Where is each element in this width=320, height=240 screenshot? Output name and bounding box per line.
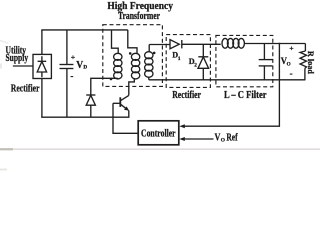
polarity dot W2 [129, 52, 132, 55]
label D1 [172, 51, 181, 63]
svg-text:1: 1 [178, 56, 181, 62]
svg-text:-: - [290, 68, 293, 78]
svg-text:R load: R load [306, 51, 316, 74]
svg-text:Supply: Supply [6, 53, 29, 64]
winding W2 primary [131, 53, 139, 79]
wire: D1 cathode to L and D2 node [182, 43, 221, 45]
label Vo Ref [215, 132, 239, 143]
svg-text:Rectifier: Rectifier [11, 84, 40, 95]
L-C filter dashed box [216, 35, 273, 86]
svg-text:Transformer: Transformer [118, 11, 161, 22]
rectifier block box [33, 54, 51, 78]
wire: Vo ref input [181, 138, 213, 140]
wire: feedback sense from output to controller [181, 43, 279, 126]
svg-text:D: D [83, 65, 87, 71]
diode D reset demagnetizing [86, 95, 95, 117]
transformer dashed box [103, 25, 163, 87]
wire: utility AC input [13, 65, 33, 67]
transistor Q switch [113, 95, 129, 117]
wire: bus step down to primary winding [128, 30, 137, 54]
svg-text:+: + [71, 52, 76, 61]
label + VD - at dc-link [70, 52, 87, 81]
capacitor C output [259, 44, 273, 80]
polarity dot W3 [153, 52, 156, 55]
diode D2 freewheeling [198, 44, 209, 80]
svg-text:Controller: Controller [141, 129, 176, 140]
diode inside input rectifier [37, 56, 46, 77]
svg-text:O: O [221, 137, 225, 143]
wire: base drive from controller [113, 103, 138, 133]
wire: secondary top rail to D1 [149, 44, 170, 46]
controller box [138, 121, 179, 145]
svg-text:Ref: Ref [226, 132, 238, 143]
wire: ground rail [41, 116, 129, 118]
wire: rectifier top lead to bus [41, 30, 43, 55]
svg-text:Rectifier: Rectifier [172, 90, 201, 101]
wire: reset winding bottom to diode [91, 78, 118, 95]
wire: bus step down to reset winding [112, 30, 119, 54]
label Utility Supply [6, 45, 29, 64]
scan artifact streaks [0, 40, 320, 171]
resistor R load [300, 44, 306, 80]
svg-text:-: - [70, 71, 73, 81]
wire: top DC bus [41, 29, 128, 31]
winding W3 secondary [145, 52, 153, 78]
capacitor C dc-link [60, 30, 74, 117]
svg-text:L – C Filter: L – C Filter [224, 90, 267, 101]
wire: secondary bottom lead [148, 77, 150, 80]
svg-text:O: O [287, 62, 291, 68]
label High Frequency Transformer [107, 1, 173, 22]
winding W1 reset [114, 53, 122, 79]
polarity dot W1 [110, 78, 113, 81]
label + Vo - at output [281, 43, 295, 78]
wire: secondary top lead [148, 45, 150, 52]
output rectifier dashed box [166, 35, 210, 88]
svg-text:+: + [289, 43, 294, 52]
diode D1 [170, 40, 182, 49]
wire: primary bottom to collector [129, 78, 135, 95]
arrowhead Vo ref [179, 137, 184, 141]
arrowhead feedback [179, 124, 184, 128]
wire: rectifier bottom lead to ground rail [41, 79, 43, 118]
label D2 [189, 57, 198, 68]
svg-text:2: 2 [194, 63, 197, 69]
wire: output bottom rail [149, 79, 306, 81]
inductor L [222, 38, 244, 48]
wire: L output to load top rail [244, 43, 305, 45]
